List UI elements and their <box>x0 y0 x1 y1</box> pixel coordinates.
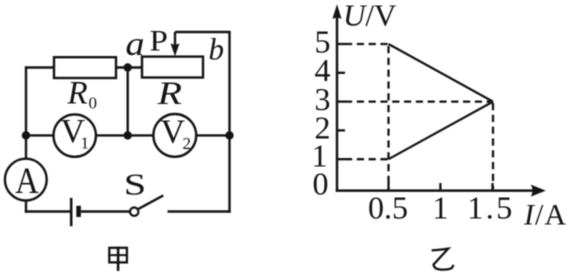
wire: left junction to V1 <box>26 134 54 136</box>
svg-text:R: R <box>156 76 182 112</box>
dashed guide x=0.5 <box>387 46 389 189</box>
switch S <box>130 195 163 216</box>
svg-text:b: b <box>209 32 225 67</box>
svg-text:0.5: 0.5 <box>368 190 408 226</box>
tick x=1.5 <box>491 183 493 191</box>
svg-text:1: 1 <box>81 133 90 152</box>
dashed guide lines <box>345 44 493 189</box>
svg-text:a: a <box>126 25 145 63</box>
rheostat wiper P arrow <box>171 32 180 56</box>
svg-text:U/V: U/V <box>343 0 397 33</box>
rheostat R (resistor box) <box>142 57 203 78</box>
battery cell <box>71 198 78 226</box>
x axis I <box>336 189 538 192</box>
junction dot on right rail <box>225 131 233 139</box>
wire: V2 to right rail <box>196 134 229 136</box>
wire: ammeter bottom to bottom rail <box>25 201 27 213</box>
wire: left vertical rail (top corner down to ammeter) <box>25 66 27 159</box>
svg-text:P: P <box>150 24 168 57</box>
y axis U <box>336 9 339 192</box>
svg-text:R: R <box>67 76 88 112</box>
wire: middle junction to V2 <box>128 134 154 136</box>
junction dot on left rail <box>22 131 30 139</box>
curve U2 falling line <box>389 44 494 102</box>
tick x=0.5 <box>387 183 389 191</box>
tick x=1 <box>439 183 441 191</box>
wire: top-left horizontal from left rail to R0 <box>26 66 54 68</box>
dashed guide y=3 <box>345 100 493 102</box>
graph axes <box>332 4 545 196</box>
svg-text:S: S <box>124 167 146 201</box>
tick y=2 <box>337 129 345 131</box>
tick y=5 <box>337 43 345 45</box>
resistor R0 <box>54 57 116 78</box>
svg-text:0: 0 <box>89 94 98 113</box>
dashed guide y=1 <box>345 158 389 160</box>
junction dot middle <box>124 131 132 139</box>
x axis arrowhead <box>531 185 546 197</box>
dashed guide x=1.5 <box>492 103 494 189</box>
node junction between R0 and R <box>124 63 132 71</box>
svg-text:0: 0 <box>313 166 329 202</box>
tick y=1 <box>337 158 345 160</box>
svg-text:1: 1 <box>432 190 448 226</box>
caption jia (figure 1) <box>109 248 127 270</box>
svg-text:I/A: I/A <box>523 199 567 232</box>
wire: right vertical rail <box>228 32 230 213</box>
svg-text:1.5: 1.5 <box>467 190 515 226</box>
voltmeter V1 <box>53 113 95 157</box>
dashed guide y=5 <box>345 43 389 45</box>
axis ticks <box>337 44 493 191</box>
y axis arrowhead <box>332 4 341 19</box>
wire: V1 to middle junction <box>96 134 128 136</box>
wire: wiper top horizontal over to right rail <box>175 31 231 33</box>
wire: R0 right terminal to node a column and to R left terminal <box>116 66 142 68</box>
svg-text:A: A <box>15 160 38 201</box>
wire: battery to switch <box>81 210 129 212</box>
tick y=4 <box>337 72 345 74</box>
voltmeter V2 <box>153 114 196 157</box>
tick y=3 <box>337 100 345 102</box>
ammeter A <box>5 159 47 202</box>
wire: middle vertical from top node down to voltmeter row <box>126 68 128 136</box>
svg-text:2: 2 <box>183 134 192 153</box>
wire: bottom rail from ammeter to battery <box>25 210 70 212</box>
caption yi (figure 2) <box>432 249 454 270</box>
curve U1 rising line <box>389 102 494 160</box>
wire: switch right contact to right rail <box>168 210 231 212</box>
